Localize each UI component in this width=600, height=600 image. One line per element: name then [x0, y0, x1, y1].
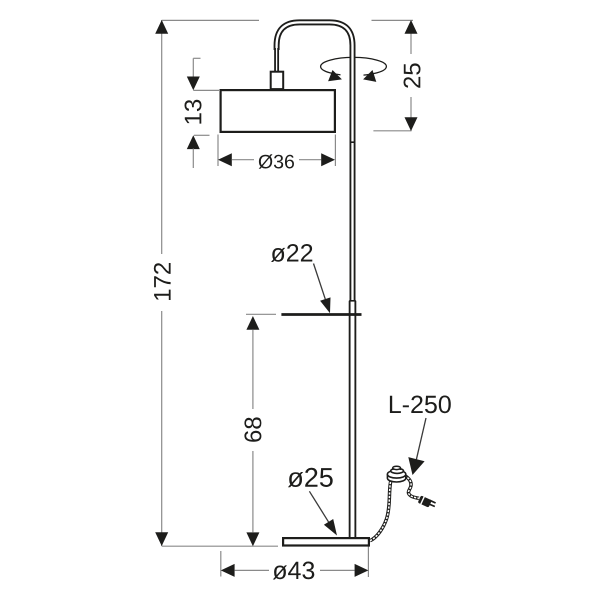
dimension O36 left extension line — [217, 135, 219, 167]
lamp arm tube white core — [277, 22, 353, 537]
dimension o43 right extension line — [367, 546, 369, 578]
lamp base — [283, 538, 369, 545]
foot switch button middle tier — [391, 468, 404, 473]
dimension 25 extension line bottom — [373, 130, 411, 132]
dimension 68 extension line top — [246, 313, 276, 315]
dimension 13 text — [185, 100, 202, 124]
dimension 68 text — [244, 417, 261, 441]
dimension O36 text — [259, 154, 294, 169]
dimension 13 top tick — [193, 57, 200, 59]
dimension O36 left arrow — [218, 153, 232, 166]
foot switch body — [387, 474, 405, 482]
dimension o43 right arrow — [355, 564, 369, 577]
dimension O36 dim line right — [299, 159, 321, 161]
dimension 13 arrow up (bottom) — [187, 135, 200, 149]
dimension o43 dim line left — [235, 569, 269, 571]
power cord from base to switch — [370, 479, 392, 541]
dimension O36 right arrow — [321, 153, 335, 166]
lamp shade — [221, 90, 335, 132]
label L-250 arrow — [408, 457, 424, 475]
label o22 text — [271, 244, 312, 262]
dimension 172 arrow up — [155, 20, 168, 34]
power cord from switch to plug — [405, 476, 420, 499]
dimension 25 arrow down — [405, 117, 418, 131]
dimension O36 dim line left — [232, 159, 254, 161]
shelf (small table) — [281, 313, 361, 316]
dimension 25 line lower segment — [410, 97, 412, 131]
dimension 68 arrow up — [246, 316, 259, 330]
rotation ellipse front gap — [341, 71, 364, 81]
lamp arm lower left tube white core — [276, 46, 278, 71]
dimension 25 text — [404, 63, 421, 87]
pole collar joint above shelf — [349, 300, 356, 302]
lamp socket — [271, 72, 284, 89]
dimension 172 line upper segment — [161, 20, 163, 254]
label o22 arrow — [320, 297, 330, 313]
rotation ellipse (back arc) — [321, 57, 387, 75]
pole lower section black outline — [349, 301, 357, 538]
dimension 13 line below bottom arrow — [192, 149, 194, 169]
label L-250 leader line — [416, 418, 426, 460]
dimension 13 extension to shade top — [193, 89, 219, 91]
label o25 arrow — [324, 519, 337, 536]
dimension 13 arrow down (top) — [187, 77, 200, 91]
lamp arm lower left tube black outline — [274, 48, 279, 71]
dimension 13 extension at shade bottom — [194, 134, 210, 136]
dimension o43 dim line right — [320, 569, 355, 571]
rotation arrow right — [363, 70, 376, 82]
label o22 leader line — [314, 264, 327, 303]
plug body — [417, 495, 432, 508]
label L-250 text — [390, 396, 451, 414]
foot switch button top — [393, 468, 401, 470]
dimension 172 extension line top — [162, 19, 259, 21]
pole lower section white core — [351, 301, 355, 538]
dimension o43 left arrow — [221, 564, 235, 577]
label o25 leader line — [309, 491, 330, 524]
pole joint line — [350, 141, 356, 143]
dimension o43 text — [273, 562, 315, 580]
dimension 25 arrow up — [405, 20, 418, 34]
dimension 68 arrow down — [246, 532, 259, 546]
dimension 68 line lower segment — [252, 451, 254, 532]
dimension 13 line above top arrow — [192, 58, 194, 79]
rotation arrow left — [328, 70, 342, 81]
dimension 25 extension line top — [372, 19, 414, 21]
dimension 172 extension line bottom (floor line) — [162, 545, 278, 547]
dimension o43 left extension line — [220, 551, 222, 577]
plug prongs — [430, 500, 436, 503]
lamp arm tube black outline — [277, 22, 353, 537]
dimension 172 line lower segment — [161, 311, 163, 546]
dimension O36 right extension line — [334, 135, 336, 167]
dimension 68 line upper segment — [252, 330, 254, 409]
dimension 172 text — [154, 263, 171, 300]
dimension 25 line upper segment — [410, 20, 412, 54]
label o25 text — [288, 468, 333, 487]
dimension 172 arrow down — [155, 532, 168, 546]
